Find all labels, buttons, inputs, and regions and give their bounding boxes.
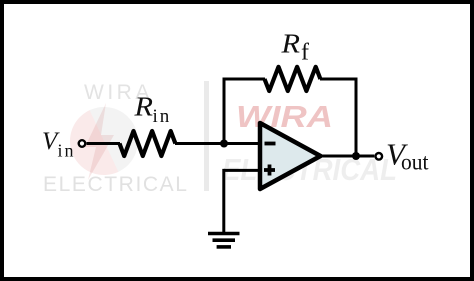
ground (208, 234, 240, 247)
svg-text:in: in (58, 141, 76, 161)
svg-text:f: f (301, 40, 309, 66)
wire feedback left vertical (223, 78, 226, 144)
op-amp U1 (260, 123, 321, 189)
wire Vin terminal to Rin (87, 142, 120, 145)
svg-text:ELECTRICAL: ELECTRICAL (43, 173, 189, 196)
watermark / decorative background (43, 81, 397, 196)
label Rf (280, 29, 309, 66)
wire output (321, 155, 375, 158)
resistor Rin (120, 131, 176, 156)
svg-text:in: in (153, 106, 172, 127)
wire noninverting input (224, 169, 260, 172)
wire to ground (222, 169, 225, 233)
terminal Vout (376, 153, 383, 160)
node B output junction (352, 152, 360, 160)
resistor Rf (265, 67, 321, 91)
wire feedback right vertical (355, 78, 358, 157)
label Rin (133, 92, 171, 128)
terminal Vin (79, 140, 86, 147)
svg-text:R: R (133, 92, 153, 122)
label Vin (42, 128, 76, 161)
svg-text:R: R (280, 29, 300, 59)
svg-text:out: out (401, 150, 429, 175)
wire Rin to inverting input (175, 142, 260, 145)
wire feedback top left (223, 78, 266, 81)
wire feedback top right (320, 78, 358, 81)
svg-text:WIRA: WIRA (236, 99, 333, 134)
node A inverting-input junction (220, 140, 228, 148)
label Vout (386, 137, 429, 175)
